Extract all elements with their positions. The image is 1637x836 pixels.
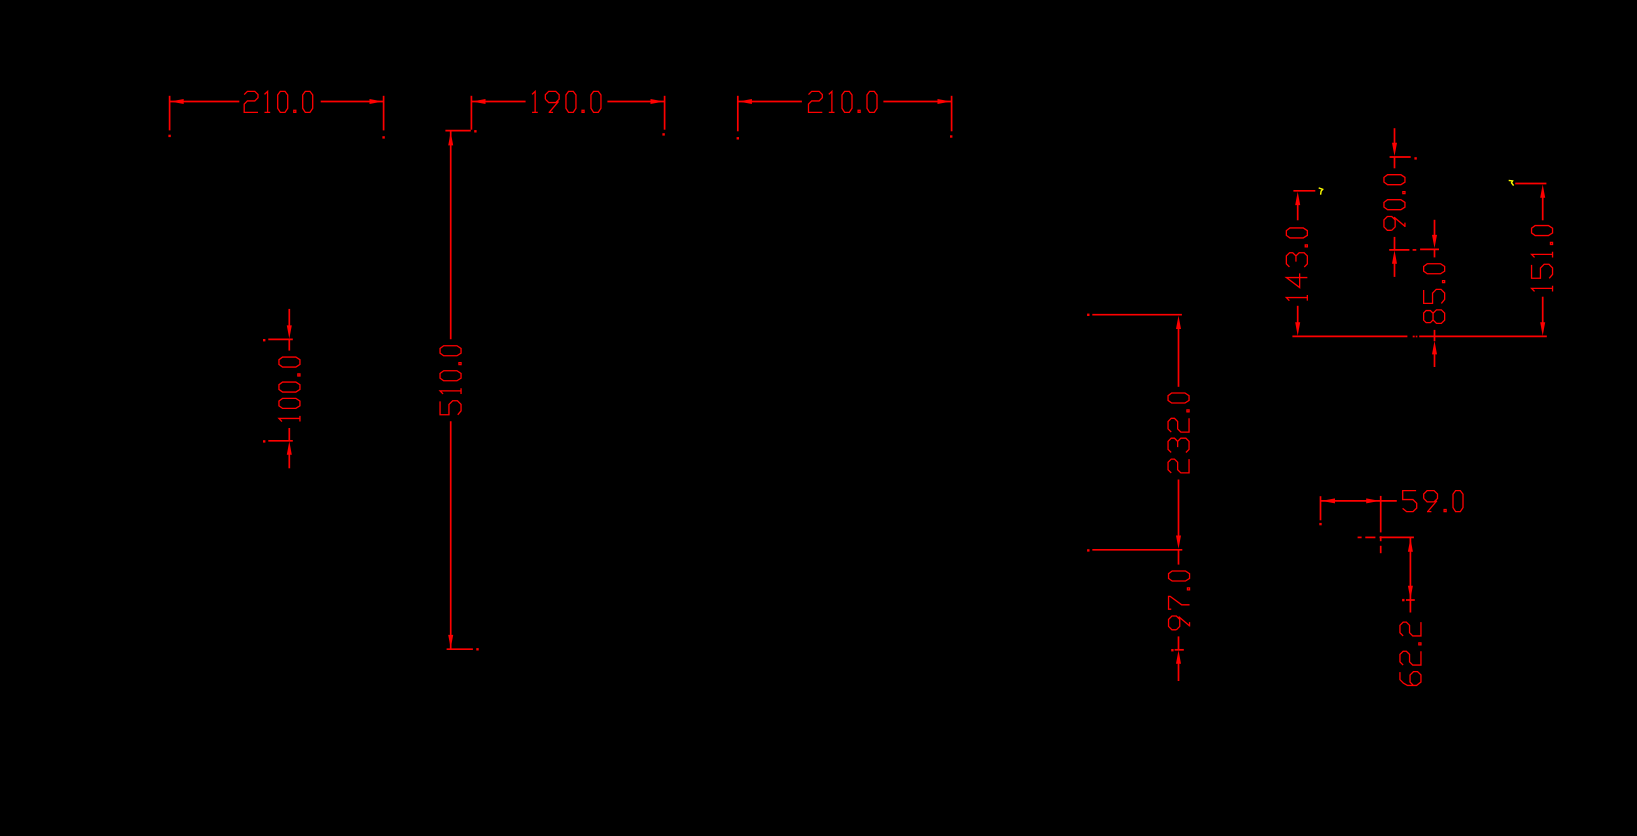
dim 59.0 right extension line <box>1380 496 1382 533</box>
dim 143.0 label <box>1286 228 1307 301</box>
dim 510.0 top arrowhead <box>448 132 453 145</box>
dim 232.0 bottom extension line <box>1092 549 1182 551</box>
dim 100.0 top arrowhead <box>287 325 292 338</box>
dim 62.2 top extension dash b <box>1365 536 1375 538</box>
cluster baseline dash 1 <box>1413 336 1415 338</box>
dim 85.0 top arrowhead <box>1432 235 1437 248</box>
dim 97.0 bottom defpoint <box>1171 649 1173 651</box>
dim 210.0 dimension line right segment <box>321 101 384 103</box>
yellow object mark near 143.0 <box>1319 188 1323 195</box>
dim 90.0 dimension line lower segment <box>1394 237 1396 250</box>
cluster baseline dash 2 <box>1416 336 1418 338</box>
dim 210.0b right extension line <box>951 96 953 132</box>
dim 62.2 top arrowhead <box>1408 538 1413 551</box>
dim 62.2 bottom extension line <box>1406 599 1415 601</box>
dim 100.0 dimension line lower segment <box>288 428 290 441</box>
dim 210.0 label <box>244 91 313 112</box>
dim 210.0 left arrowhead <box>170 99 183 104</box>
dim 85.0 top tail <box>1434 220 1436 238</box>
yellow object mark near 151.0 <box>1509 180 1514 185</box>
dim 90.0 top arrowhead <box>1392 143 1397 156</box>
dim 59.0 right arrowhead <box>1366 498 1379 503</box>
dim 62.2 top extension line <box>1380 536 1414 538</box>
dim 151.0 bottom arrowhead <box>1540 322 1545 335</box>
dim 210.0b right arrowhead <box>938 99 951 104</box>
dim 59.0 left defpoint <box>1319 523 1321 525</box>
dim 510.0 bottom defpoint <box>476 648 478 650</box>
dim 190.0 left extension line <box>470 96 472 130</box>
dim 62.2 bottom arrowhead <box>1408 586 1413 599</box>
dim 85.0 label <box>1424 264 1445 324</box>
dim 210.0b dimension line right segment <box>883 101 951 103</box>
dim 85.0 top extension line <box>1420 248 1439 250</box>
dim 90.0 top extension line <box>1390 156 1411 158</box>
dim 210.0 right extension line <box>383 96 385 131</box>
dim 190.0 right defpoint <box>662 133 664 135</box>
dim 232.0 label <box>1168 393 1189 473</box>
dim 210.0 left extension line <box>169 96 171 131</box>
dim 100.0 dimension line upper segment <box>288 339 290 350</box>
dim 210.0 dimension line left segment <box>170 101 240 103</box>
dim 190.0 right arrowhead <box>651 99 664 104</box>
dim 97.0 bottom extension line <box>1175 649 1184 651</box>
dim 100.0 bottom extension line <box>268 440 293 442</box>
dim 151.0 dimension line upper segment <box>1542 196 1544 221</box>
dim 210.0b label <box>809 91 878 112</box>
cluster baseline right part <box>1419 335 1547 337</box>
dim 190.0 dimension line left segment <box>471 101 525 103</box>
dim 510.0 dimension line upper segment <box>450 131 452 339</box>
dim 97.0 dimension line lower segment <box>1178 636 1180 649</box>
dim 90.0 top defpoint <box>1414 157 1416 159</box>
dim 210.0b left arrowhead <box>739 99 752 104</box>
dim 100.0 bottom arrowhead <box>287 441 292 454</box>
dim 62.2 tail to text <box>1409 600 1411 613</box>
cluster baseline left part <box>1292 335 1407 337</box>
dim 85.0 bottom tail <box>1434 352 1436 367</box>
dim 151.0 label <box>1532 226 1553 292</box>
dim 210.0 right arrowhead <box>370 99 383 104</box>
dim 143.0 bottom arrowhead <box>1295 322 1300 335</box>
dim 210.0b left defpoint <box>737 137 739 139</box>
dim 59.0 label <box>1403 491 1463 512</box>
dim 100.0 label <box>279 357 300 422</box>
dim 100.0 bottom defpoint <box>263 440 265 442</box>
dim 90.0 bottom tail <box>1394 262 1396 277</box>
dim 232.0 dimension line upper segment <box>1178 327 1180 387</box>
dim 232.0 top arrowhead <box>1176 316 1181 329</box>
dim 210.0 left defpoint <box>168 135 170 137</box>
dim 62.2 label <box>1400 622 1421 685</box>
dim 232.0 bottom defpoint <box>1087 549 1089 551</box>
dim 62.2 top extension dash a <box>1358 536 1362 538</box>
dim 510.0 bottom extension line <box>447 648 473 650</box>
dim 190.0 dimension line right segment <box>607 101 664 103</box>
dim 90.0 label <box>1384 175 1405 231</box>
dim 143.0 dimension line lower segment <box>1297 306 1299 324</box>
dim 85.0 dimension line lower segment <box>1434 330 1436 341</box>
dim 59.0 dimension line <box>1321 500 1381 502</box>
dim 62.2 bottom defpoint <box>1402 599 1404 601</box>
dim 190.0 label <box>532 91 601 112</box>
dim 190.0 right extension line <box>664 96 666 130</box>
dim 143.0 top arrowhead <box>1295 192 1300 205</box>
dim 210.0 right defpoint <box>382 136 384 138</box>
dim 85.0 bottom arrowhead <box>1432 341 1437 354</box>
dim 151.0 top arrowhead <box>1540 184 1545 197</box>
dim 100.0 top defpoint <box>263 339 265 341</box>
dim 210.0b dimension line left segment <box>738 101 802 103</box>
dim 100.0 top tail <box>288 309 290 328</box>
dim 90.0 top tail <box>1394 128 1396 145</box>
dim 190.0 left arrowhead <box>472 99 485 104</box>
dim 143.0 dimension line upper segment <box>1297 203 1299 220</box>
dim 143.0 top extension line <box>1293 190 1315 192</box>
dim 97.0 bottom tail <box>1178 662 1180 681</box>
dim 100.0 bottom tail <box>288 453 290 468</box>
dim 59.0 left extension line <box>1320 496 1322 520</box>
dim 90.0 bottom arrowhead <box>1392 250 1397 263</box>
dim 151.0 dimension line lower segment <box>1542 297 1544 325</box>
dim 510.0 dimension line lower segment <box>450 421 452 648</box>
dim 85.0 dimension line upper segment <box>1434 249 1436 257</box>
dim 232.0 top defpoint <box>1087 314 1089 316</box>
dim 510.0 label <box>440 346 461 415</box>
dim 59.0 left arrowhead <box>1322 498 1335 503</box>
dim 62.2 dimension line <box>1409 537 1411 600</box>
dim 510.0 top extension line <box>445 130 470 132</box>
dim 59.0 leader to text <box>1381 500 1397 502</box>
dim 232.0 dimension line lower segment <box>1178 480 1180 537</box>
dim 90.0 dimension line upper segment <box>1394 157 1396 168</box>
dim 232.0 bottom arrowhead <box>1176 536 1181 549</box>
dim 90.0 bottom extension line <box>1389 249 1409 251</box>
dim 210.0b left extension line <box>737 96 739 132</box>
dim 59.0 right extension dash 1 <box>1380 536 1382 541</box>
dim 97.0 dimension line upper segment <box>1178 550 1180 565</box>
dim 151.0 top extension line <box>1515 183 1546 185</box>
dim 210.0b right defpoint <box>950 135 952 137</box>
dim 190.0 left defpoint <box>474 130 476 132</box>
dim 97.0 label <box>1169 571 1190 630</box>
dim 232.0 top extension line <box>1092 314 1182 316</box>
dim 100.0 top extension line <box>268 338 293 340</box>
dim 510.0 bottom arrowhead <box>448 635 453 648</box>
dim 97.0 bottom arrowhead <box>1176 650 1181 663</box>
dim 59.0 right extension dash 2 <box>1380 546 1382 553</box>
dim 90.0 bottom extension dash <box>1413 249 1417 251</box>
